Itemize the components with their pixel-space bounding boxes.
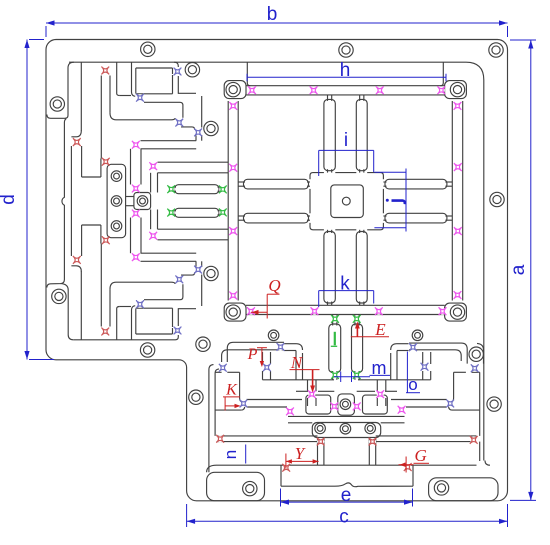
flexure ring right <box>454 227 462 235</box>
dimension a (right overall height) <box>530 40 532 500</box>
hub top <box>296 379 334 381</box>
flexure hinge <box>194 129 202 137</box>
beam upper-left <box>324 99 335 170</box>
bolt hole <box>140 343 154 357</box>
flexure hinge <box>174 327 182 335</box>
flexure hinge <box>376 390 384 398</box>
svg-text:e: e <box>341 485 352 506</box>
e-block bottom with break mark <box>281 483 413 487</box>
bolt hole <box>52 289 66 303</box>
wire <box>131 62 133 92</box>
flexure top bar <box>437 86 445 94</box>
central platform <box>331 185 364 218</box>
flexure hinge <box>102 158 110 166</box>
lever column outer <box>100 76 102 159</box>
tab bottom-left <box>207 472 265 500</box>
flexure hinge <box>101 328 109 336</box>
green beam left <box>329 324 341 373</box>
band <box>288 415 405 417</box>
bolt hole <box>185 62 199 76</box>
flexure hinge <box>167 209 175 217</box>
coupler beam upper <box>175 185 220 194</box>
bolt hole <box>487 397 501 411</box>
bolt hole <box>412 330 423 341</box>
flexure ring TR <box>454 102 462 110</box>
lever link A <box>144 102 183 118</box>
K block right <box>239 372 241 398</box>
flexure hinge <box>331 315 339 323</box>
e-block left <box>280 465 282 486</box>
bolt hole <box>226 82 240 96</box>
flexure hinge <box>330 403 338 411</box>
flexure hinge <box>101 67 109 75</box>
svg-text:n: n <box>221 450 240 459</box>
dimension b (top overall width) <box>46 22 508 24</box>
O block left <box>453 372 455 398</box>
bolt hole <box>434 481 448 495</box>
flexure hinge <box>446 400 454 408</box>
link band <box>130 149 132 185</box>
flexure hinge <box>404 463 412 471</box>
input platform <box>107 164 126 237</box>
flexure ring left <box>229 227 237 235</box>
svg-text:k: k <box>340 274 350 295</box>
svg-text:o: o <box>408 375 417 394</box>
bolt hole <box>196 337 210 351</box>
bolt hole <box>189 390 203 404</box>
K block top <box>215 371 222 373</box>
O block bottom <box>452 409 480 411</box>
K block bottom <box>215 409 241 411</box>
svg-text:K: K <box>225 382 238 399</box>
arm <box>82 176 101 178</box>
bolt hole <box>111 196 122 207</box>
flexure hinge <box>353 315 361 323</box>
bolt hole <box>137 196 148 207</box>
flexure hinge <box>277 343 285 351</box>
hub corner BR <box>367 223 383 230</box>
frame cut top edge <box>69 62 484 80</box>
svg-text:E: E <box>374 320 386 339</box>
stub <box>150 173 152 193</box>
dimension i <box>319 149 374 151</box>
anchor block bottom <box>136 93 173 95</box>
wire bar to frame right <box>440 62 443 85</box>
lever bar 2 / output <box>158 161 229 163</box>
flexure ring BR <box>454 291 462 299</box>
hub edge top <box>335 172 356 174</box>
stage top bar <box>246 85 445 87</box>
bolt hole <box>226 305 240 319</box>
n-bar left top <box>217 435 318 437</box>
label l (green) <box>334 332 336 346</box>
lever link B <box>110 113 175 120</box>
bolt hole <box>268 330 279 341</box>
flexure hinge <box>132 253 140 261</box>
flexure hinge <box>308 390 316 398</box>
flexure hinge <box>73 256 81 264</box>
flexure hinge <box>240 400 248 408</box>
stage bottom bar <box>246 304 445 306</box>
O block top <box>472 371 480 373</box>
upper margin channel <box>47 62 74 118</box>
mid band left + stub <box>227 342 284 362</box>
flexure hinge <box>317 438 325 446</box>
svg-text:Y: Y <box>295 444 306 463</box>
beam lower-left <box>324 232 335 304</box>
bolt hole <box>339 43 353 57</box>
svg-text:c: c <box>339 507 349 528</box>
flexure hinge <box>175 119 183 127</box>
stem right <box>368 438 370 466</box>
link bar left <box>247 399 303 401</box>
flexure bottom bar <box>311 307 319 315</box>
stage corner block BR <box>445 303 467 321</box>
bolt hole <box>340 423 351 434</box>
dimension d (left height) <box>26 40 28 360</box>
beam right-bottom <box>385 213 447 223</box>
bolt stub right edge <box>477 343 484 363</box>
flexure hinge <box>263 364 271 372</box>
hub edge right <box>382 189 384 213</box>
flexure top bar <box>248 86 256 94</box>
frame cut right edge <box>483 80 485 461</box>
flexure hinge <box>132 141 140 149</box>
stem left <box>317 438 319 466</box>
bolt hole <box>365 423 376 434</box>
flexure hinge <box>471 364 479 372</box>
flexure ring right <box>454 163 462 171</box>
wire <box>116 62 118 93</box>
flexure top bar <box>310 86 318 94</box>
bolt block <box>312 423 380 438</box>
flexure hinge <box>132 210 140 218</box>
bolt hole <box>141 42 155 56</box>
flexure hinge <box>398 406 406 414</box>
dimension j <box>405 169 407 232</box>
n-bar right top <box>376 435 477 437</box>
flexure ring left <box>229 164 237 172</box>
stage corner block TR <box>445 81 467 99</box>
flexure hinge <box>194 266 202 274</box>
flexure bottom bar <box>247 307 255 315</box>
wing right <box>363 395 388 414</box>
bolt hole <box>469 347 483 361</box>
hub corner TR <box>367 173 383 180</box>
mid band right + bolt stub <box>409 343 467 364</box>
flexure hinge <box>353 371 361 379</box>
link down <box>201 96 203 128</box>
lever bar 1 <box>141 140 197 142</box>
left mech top edge arc <box>174 62 178 67</box>
svg-text:G: G <box>415 446 427 465</box>
right arm inner lower <box>479 442 481 461</box>
beam left-bottom <box>244 213 309 223</box>
beam lower-right <box>356 232 367 304</box>
hub corner BL <box>310 223 324 230</box>
bolt hole <box>315 423 326 434</box>
bolt hole <box>450 82 464 96</box>
link bar right <box>391 399 447 401</box>
stage corner block TL <box>224 81 246 99</box>
e-block right <box>412 465 414 486</box>
green beam right <box>352 324 363 373</box>
wing left <box>306 395 331 414</box>
svg-text:i: i <box>344 130 348 151</box>
flexure bottom bar <box>439 307 447 315</box>
bolt hole <box>204 266 218 280</box>
left arm inner / K block left <box>215 369 219 436</box>
flexure hinge <box>73 138 81 146</box>
dimension k <box>319 290 374 292</box>
cut left edge with actuator seat <box>47 119 66 288</box>
flexure hinge <box>175 276 183 284</box>
left arm outer <box>209 365 214 473</box>
flexure bottom bar <box>375 307 383 315</box>
input bar <box>70 146 72 256</box>
cap bottom <box>71 266 81 272</box>
flexure ring BL <box>229 292 237 300</box>
bolt hole <box>450 305 464 319</box>
flexure hinge <box>219 209 227 217</box>
flexure hinge <box>149 232 157 240</box>
bolt hole <box>340 399 351 410</box>
bolt hole <box>243 481 257 495</box>
hub edge left <box>309 189 311 213</box>
hub bottom <box>296 390 308 392</box>
flexure hinge <box>149 162 157 170</box>
bolt hole <box>204 121 218 135</box>
tab bottom-right <box>429 478 498 501</box>
svg-text:b: b <box>267 4 278 25</box>
hub corner TL <box>310 173 324 180</box>
output block <box>134 193 151 210</box>
flexure hinge <box>369 438 377 446</box>
left wall <box>80 62 82 131</box>
flexure hinge <box>282 464 290 472</box>
flexure hinge <box>136 300 144 308</box>
lever link C <box>181 127 195 130</box>
beam left-top <box>244 179 309 189</box>
lower tab right edge <box>61 284 74 340</box>
svg-text:P: P <box>247 346 258 363</box>
bolt hole <box>111 221 122 232</box>
svg-text:h: h <box>340 60 351 81</box>
N stub <box>307 380 309 392</box>
stage corner block BL <box>224 303 246 321</box>
flexure hinge <box>167 185 175 193</box>
stub to X P <box>262 352 264 364</box>
svg-text:d: d <box>0 194 19 205</box>
svg-text:a: a <box>508 264 529 275</box>
bolt hole <box>50 97 64 111</box>
coupler beam lower <box>175 208 220 217</box>
center hole <box>342 197 350 205</box>
feed left <box>284 343 296 345</box>
flexure hinge <box>286 408 294 416</box>
flexure hinge <box>216 435 224 443</box>
dimension c (bottom width) <box>187 520 508 522</box>
block upper <box>136 67 173 69</box>
flexure hinge <box>136 94 144 102</box>
flexure hinge <box>353 403 361 411</box>
svg-text:Q: Q <box>268 276 280 295</box>
bolt hole <box>489 43 503 57</box>
flexure hinge <box>219 186 227 194</box>
flexure hinge <box>102 236 110 244</box>
dimension h <box>247 76 446 78</box>
wire bar to frame left <box>247 62 250 85</box>
dimension o <box>406 352 408 393</box>
flexure hinge <box>470 436 478 444</box>
flexure top bar <box>376 86 384 94</box>
right arm to bottom bar <box>485 461 490 466</box>
stage left bar <box>227 101 229 301</box>
stage right bar <box>451 101 453 301</box>
flexure hinge <box>331 371 339 379</box>
beam right-top <box>385 179 447 189</box>
central block <box>338 394 355 415</box>
outer plate outline <box>46 40 508 501</box>
dimension e <box>281 501 413 503</box>
dimension n <box>245 445 247 464</box>
neck <box>126 196 134 198</box>
flexure hinge <box>219 364 227 372</box>
right arm inner / O block right <box>479 372 481 436</box>
flexure hinge <box>409 343 417 351</box>
bolt hole <box>490 192 504 206</box>
cap top <box>71 131 81 137</box>
left mech bottom edge <box>73 335 178 340</box>
beam upper-right <box>356 99 367 170</box>
flexure hinge <box>174 68 182 76</box>
bottom bar <box>217 464 477 466</box>
flexure hinge <box>421 363 429 371</box>
hub edge bottom <box>335 229 356 231</box>
dimension m <box>340 372 342 383</box>
flexure ring TL <box>229 102 237 110</box>
feed right <box>397 343 409 345</box>
bolt hole <box>111 171 122 182</box>
flexure hinge <box>132 185 140 193</box>
